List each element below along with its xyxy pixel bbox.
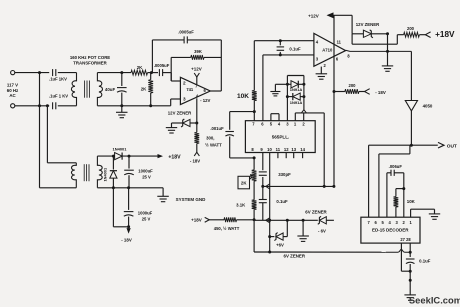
svg-text:10K: 10K	[237, 93, 249, 100]
wire 565 pin6 to A710 pin 3	[263, 53, 314, 120]
resistor 200 top right	[397, 26, 425, 37]
svg-text:117 V: 117 V	[7, 83, 18, 88]
capacitor 0.1uF mid	[259, 186, 288, 220]
svg-text:12V ZENER: 12V ZENER	[168, 111, 192, 116]
resistor 10K right	[394, 189, 416, 218]
ground at A710 pin 2	[316, 67, 328, 80]
svg-text:330pF: 330pF	[278, 172, 291, 177]
wire 10K node branch	[230, 110, 256, 130]
ground on rail A	[297, 219, 309, 242]
wire diode right vertical	[303, 76, 305, 110]
wire T1 secondary bottom	[97, 99, 180, 107]
wire feedback left riser	[151, 40, 153, 73]
svg-text:11: 11	[276, 147, 281, 152]
zener 12V left	[168, 111, 197, 128]
capacitor 0.1uF decoder	[406, 259, 431, 295]
diode 1N4001 horizontal	[97, 147, 157, 160]
power +12V arrow net	[308, 12, 352, 33]
svg-text:160 KHz POT CORE: 160 KHz POT CORE	[70, 55, 110, 60]
zener 6V +6V branch	[268, 219, 289, 248]
svg-text:OUT: OUT	[447, 144, 457, 150]
svg-text:25 V: 25 V	[142, 217, 151, 222]
wire AC drop line 1	[39, 73, 41, 188]
svg-text:3: 3	[183, 96, 186, 101]
capacitor .001uF	[210, 126, 255, 160]
wire 565 pin 10 drop	[268, 153, 271, 254]
wire 565 pin 3 riser	[286, 76, 306, 121]
svg-text:0.1uF: 0.1uF	[289, 46, 301, 51]
wire rail B hump	[386, 249, 412, 253]
svg-text:SYSTEM GND: SYSTEM GND	[176, 197, 207, 202]
connector +18V 450 feed	[191, 217, 209, 222]
svg-text:12V ZENER: 12V ZENER	[356, 22, 380, 27]
watermark SeekIC.com	[409, 294, 460, 305]
ground at decoder pin1	[429, 214, 440, 219]
label -12V at 741 pin 4	[200, 98, 210, 103]
svg-text:½ WATT: ½ WATT	[205, 142, 222, 147]
ground bottom right	[404, 295, 416, 300]
svg-text:2: 2	[183, 80, 186, 85]
IC U2 565PLL	[245, 121, 315, 159]
capacitor 1000uF 25V upper	[124, 156, 153, 188]
svg-text:741: 741	[186, 87, 194, 92]
svg-text:- 18V: - 18V	[375, 90, 386, 95]
wire decoder pin6 link	[379, 145, 410, 217]
svg-text:+12V: +12V	[191, 67, 202, 72]
svg-text:2K: 2K	[137, 65, 143, 70]
wire supply mid rail	[97, 186, 163, 196]
resistor 2K horizontal	[131, 65, 152, 75]
svg-text:1N4001: 1N4001	[102, 167, 107, 181]
connector OUT arrow	[438, 142, 457, 149]
svg-text:12: 12	[284, 147, 289, 152]
diode D2 1N91A lower	[287, 93, 304, 105]
wire diode loop top	[287, 75, 304, 77]
svg-text:6V ZENER: 6V ZENER	[284, 254, 306, 259]
potentiometer 2K trim	[238, 158, 257, 200]
zener 6V -6V inline	[305, 210, 334, 234]
svg-text:3.1K: 3.1K	[236, 203, 246, 208]
resistor 300 half watt	[194, 123, 222, 152]
capacitor .0005uF feedback	[152, 30, 221, 44]
capacitor .006uF	[387, 164, 404, 217]
diode 1N4001 vertical	[102, 156, 117, 188]
capacitor 0.1uF at A710	[277, 41, 301, 55]
capacitor .0005uF input	[154, 63, 181, 81]
resistor 2K vertical	[141, 73, 153, 106]
svg-text:A710: A710	[322, 48, 333, 53]
svg-text:SeekIC.com: SeekIC.com	[409, 294, 460, 305]
resistor 450 half watt	[209, 217, 254, 231]
wire 565 pin 1 to right net	[295, 113, 325, 188]
svg-text:450, ½ WATT: 450, ½ WATT	[214, 226, 240, 231]
IC U5 ED-15 DECODER	[361, 217, 420, 243]
ground below 40uF	[116, 112, 128, 117]
wire supply negative corner	[113, 188, 130, 229]
svg-text:2K: 2K	[241, 181, 247, 186]
connector +18V top right	[425, 30, 455, 39]
capacitor .1uF 1KV top	[49, 69, 67, 82]
capacitor 1000uF 25V lower	[124, 188, 153, 227]
ground below 12V zener	[166, 128, 177, 133]
svg-text:27 28: 27 28	[400, 237, 411, 242]
wire pin8 line to bottom rail	[254, 220, 386, 252]
op-amp U1 741	[180, 77, 210, 104]
wire 741 pin 4 down	[195, 98, 198, 124]
wire rail A	[254, 218, 318, 223]
svg-text:ED-15 DECODER: ED-15 DECODER	[372, 228, 409, 233]
svg-text:- 6V: - 6V	[318, 229, 326, 234]
wire 741 output	[210, 40, 221, 91]
svg-text:+18V: +18V	[191, 218, 202, 223]
wire cap to transformer primary top	[58, 72, 77, 74]
label 6V ZENER lower	[284, 254, 306, 259]
svg-text:14: 14	[300, 147, 305, 152]
wire cap right arm to 10K top	[396, 173, 405, 217]
capacitor .1uF 1 KV bottom	[49, 94, 68, 110]
connector -18V supply out	[121, 227, 132, 243]
resistor 39K feedback	[171, 49, 221, 81]
node AC input terminal top	[11, 71, 15, 75]
svg-text:300,: 300,	[206, 135, 214, 140]
wire T2 primary bottom lead	[40, 187, 77, 189]
svg-text:- 18V: - 18V	[190, 158, 200, 163]
wire decoder pin 28 drop	[409, 243, 411, 257]
resistor 200 to -18V	[334, 83, 365, 94]
capacitor 40uF	[105, 73, 127, 113]
label 117V 60Hz AC	[7, 83, 19, 99]
ground SYSTEM GND	[157, 196, 206, 202]
connector -18V mid right	[365, 89, 386, 95]
svg-text:39K: 39K	[194, 49, 202, 54]
svg-text:+18V: +18V	[435, 30, 455, 39]
wire 565 pins 5-4 bridge	[271, 114, 279, 121]
svg-text:.1uF 1KV: .1uF 1KV	[49, 77, 67, 82]
zener 12V right	[352, 22, 389, 38]
svg-text:1000uF: 1000uF	[138, 210, 153, 215]
wire AC line top	[15, 71, 49, 74]
transformer T2	[71, 156, 102, 188]
svg-text:200: 200	[349, 83, 357, 88]
wire zener bypass loop	[352, 34, 397, 52]
wire T2 primary top lead	[47, 162, 76, 164]
resistor 10K to pin7	[237, 41, 257, 121]
svg-text:+18V: +18V	[168, 154, 181, 160]
diode D1 1N91A upper	[287, 81, 304, 92]
wire decoder pin 27 drop	[401, 243, 411, 273]
svg-text:- 12V: - 12V	[200, 98, 210, 103]
capacitor 330pF	[259, 153, 291, 188]
svg-text:6V ZENER: 6V ZENER	[305, 210, 327, 215]
svg-text:0.1uF: 0.1uF	[419, 259, 431, 264]
svg-text:13: 13	[291, 147, 296, 152]
transformer T1 160KHz pot core	[70, 55, 110, 106]
svg-text:40uF: 40uF	[105, 87, 116, 92]
ground below output node	[382, 51, 393, 71]
svg-text:200: 200	[407, 26, 415, 31]
wire decoder pin1 to ground	[411, 209, 435, 217]
svg-text:+6V: +6V	[276, 242, 284, 247]
wire AC drop line 2	[46, 106, 48, 163]
power +12V to 741 pin 7	[191, 67, 202, 85]
svg-text:1N91A: 1N91A	[290, 87, 303, 92]
wire OUT node	[369, 144, 438, 147]
buffer U4 4050	[405, 51, 433, 145]
wire A710 output	[346, 50, 412, 53]
svg-text:.001uF: .001uF	[210, 126, 224, 131]
resistor 3.1K	[236, 200, 256, 222]
svg-text:AC: AC	[9, 93, 16, 98]
svg-text:25 V: 25 V	[142, 175, 151, 180]
svg-text:- 18V: - 18V	[121, 238, 132, 243]
ground left of diodes	[270, 84, 287, 96]
wire T1 secondary top	[97, 71, 131, 74]
node AC input terminal bottom	[11, 104, 15, 108]
svg-text:.006uF: .006uF	[389, 164, 403, 169]
connector -18V below 300	[190, 152, 200, 163]
svg-text:TRANSFORMER: TRANSFORMER	[73, 61, 107, 66]
wire 565 pin 2 hop	[301, 110, 306, 121]
svg-text:.0005uF: .0005uF	[154, 63, 170, 68]
svg-text:10: 10	[267, 147, 272, 152]
svg-text:1000uF: 1000uF	[138, 168, 153, 173]
svg-text:10K: 10K	[407, 199, 416, 204]
wire zener corner up	[0, 0, 1, 1]
svg-text:1N91A: 1N91A	[290, 100, 303, 105]
svg-text:.1uF 1 KV: .1uF 1 KV	[49, 94, 68, 99]
wire to A710 pin 4	[254, 39, 314, 42]
svg-text:565PLL.: 565PLL.	[272, 134, 290, 139]
wire A710 supply vertical	[333, 15, 336, 186]
svg-text:2K: 2K	[141, 87, 147, 92]
connector +18V supply out	[158, 154, 182, 160]
svg-text:+12V: +12V	[308, 14, 319, 19]
wire AC line bottom	[15, 104, 49, 107]
svg-text:0.1uF: 0.1uF	[276, 199, 288, 204]
svg-text:.0005uF: .0005uF	[178, 30, 194, 35]
wire cap to transformer primary bottom	[58, 105, 77, 107]
op-amp U3 A710	[314, 33, 350, 68]
wire decoder pin7 riser	[368, 145, 370, 217]
svg-text:11: 11	[337, 39, 342, 44]
svg-text:4050: 4050	[423, 104, 433, 109]
wire mid horizontal net	[263, 184, 336, 189]
wire junction to series cap	[150, 71, 158, 74]
svg-text:1N4001: 1N4001	[112, 147, 127, 152]
